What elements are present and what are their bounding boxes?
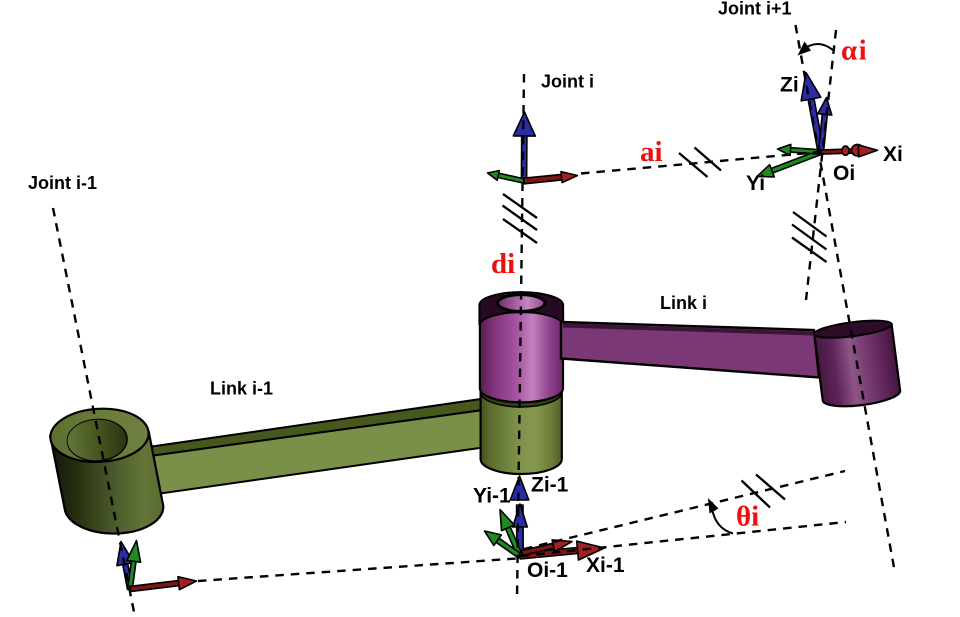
svg-text:Oi-1: Oi-1 xyxy=(527,559,568,582)
alpha i angle arc xyxy=(798,42,834,56)
svg-text:Link i-1: Link i-1 xyxy=(210,379,273,399)
frame Oi : red xi arrow xyxy=(821,144,878,157)
label Yi-1 xyxy=(473,485,511,508)
link i-1 hub top ring face xyxy=(49,406,150,464)
label Xi xyxy=(883,143,903,166)
label Joint i+1 xyxy=(718,0,792,19)
link i-1 hub bore xyxy=(66,418,127,462)
label Zi xyxy=(780,74,799,97)
frame Oi : big blue zi arrow xyxy=(801,73,824,153)
svg-text:Link i: Link i xyxy=(660,293,707,313)
joint i-1 axis (dashed) xyxy=(53,208,134,612)
theta upper reference line (dashed) xyxy=(524,471,845,549)
label Link i-1 xyxy=(210,379,273,399)
label Yi xyxy=(746,172,765,195)
label ai (red) xyxy=(640,136,663,168)
link i-1 distal green cylinder body xyxy=(481,392,562,474)
label di (red) xyxy=(491,248,515,280)
link i-1 hub cylinder body xyxy=(50,432,163,534)
frame Oi : small blue arrow xyxy=(818,98,832,153)
svg-text:θi: θi xyxy=(736,501,759,533)
link i-1 distal cylinder top rim xyxy=(481,377,562,407)
hatch marks on theta upper line xyxy=(742,475,786,508)
hatch marks on ai line xyxy=(679,148,721,178)
svg-text:Yi: Yi xyxy=(746,172,765,195)
svg-text:Zi: Zi xyxy=(780,74,799,97)
frame at joint i-1 : red arrow xyxy=(130,577,197,592)
theta lower reference line (dashed) xyxy=(521,522,846,556)
hatch marks on joint i axis xyxy=(503,194,538,243)
zi axis extension (dashed) xyxy=(806,30,836,300)
ai common normal line (dashed) xyxy=(581,152,820,174)
label theta i (red) xyxy=(736,501,759,533)
theta i angle arc xyxy=(708,498,733,534)
label alpha i (red) xyxy=(841,35,868,67)
svg-text:Xi-1: Xi-1 xyxy=(586,554,625,577)
frame at joint i : red x arrow xyxy=(524,172,578,184)
frame Oi : green yi arrow A xyxy=(757,150,822,177)
label Oi xyxy=(833,162,855,185)
link i distal cylinder (right purple) xyxy=(813,317,901,410)
frame Oi-1 : green yi-1 arrows xyxy=(485,510,523,559)
frame at joint i-1 : blue arrow xyxy=(117,542,134,590)
link i joint cylinder dark top cap xyxy=(479,292,563,325)
frame Oi : green yi arrow B xyxy=(778,144,822,155)
frame Oi-1 : red xi-1 arrows xyxy=(520,540,605,560)
frame Oi-1 : blue zi-1 arrow xyxy=(510,476,529,556)
svg-text:Oi: Oi xyxy=(833,162,855,185)
joint i axis (dashed) xyxy=(517,74,524,600)
link i joint cylinder (purple) body xyxy=(480,312,563,402)
label Zi-1 xyxy=(531,474,569,497)
frame at joint i : blue z arrow xyxy=(513,112,535,181)
svg-text:Xi: Xi xyxy=(883,143,903,166)
label Joint i xyxy=(541,72,594,92)
svg-text:Joint i: Joint i xyxy=(541,72,594,92)
frame at joint i-1 : green arrow xyxy=(127,541,141,590)
svg-text:ai: ai xyxy=(640,136,663,168)
svg-text:Joint i+1: Joint i+1 xyxy=(718,0,792,19)
joint i+1 axis (dashed) xyxy=(796,25,896,573)
svg-text:Zi-1: Zi-1 xyxy=(531,474,569,497)
label Oi-1 xyxy=(527,559,568,582)
svg-text:Joint i-1: Joint i-1 xyxy=(28,173,97,193)
svg-text:Yi-1: Yi-1 xyxy=(473,485,511,508)
svg-text:αi: αi xyxy=(841,35,868,67)
label Joint i-1 xyxy=(28,173,97,193)
xi-1 extension line (dashed) xyxy=(198,559,516,582)
svg-text:di: di xyxy=(491,248,515,280)
label Xi-1 xyxy=(586,554,625,577)
link i arm (purple) xyxy=(561,322,819,378)
hatch marks on zi extension xyxy=(792,212,827,262)
label Link i xyxy=(660,293,707,313)
link i-1 arm xyxy=(136,399,494,497)
frame at joint i : green y arrow xyxy=(488,171,525,184)
